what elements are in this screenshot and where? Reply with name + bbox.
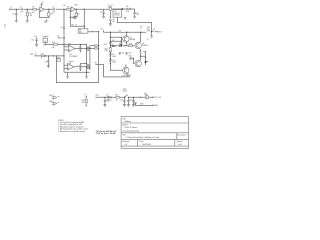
- svg-text:10/02/2020: 10/02/2020: [142, 144, 151, 146]
- svg-text:Q1: Q1: [130, 37, 132, 39]
- svg-text:R13: R13: [104, 44, 107, 46]
- svg-text:Author: Author: [123, 124, 129, 127]
- svg-text:n/c: n/c: [57, 96, 59, 98]
- svg-text:D3: D3: [112, 60, 114, 62]
- svg-text:power: power: [123, 91, 128, 93]
- svg-text:C7: C7: [100, 12, 102, 14]
- svg-text:C:\Users\Chuck\Desk - SubEngr: C:\Users\Chuck\Desk - SubEngr v1.0 .brd: [126, 137, 159, 139]
- svg-text:1 of 1: 1 of 1: [178, 144, 183, 146]
- svg-text:TL072ACP: TL072ACP: [69, 55, 78, 58]
- svg-text:SW1: SW1: [123, 89, 127, 91]
- svg-text:C12: C12: [45, 61, 48, 63]
- svg-text:C3: C3: [52, 6, 54, 8]
- svg-text:R10: R10: [52, 42, 55, 44]
- svg-text:gnd: gnd: [44, 22, 47, 24]
- svg-text:R8: R8: [72, 25, 74, 27]
- svg-text:R2: R2: [32, 6, 34, 8]
- svg-text:D6: D6: [144, 93, 146, 95]
- svg-text:R4: R4: [63, 5, 65, 7]
- svg-text:ox: ox: [140, 28, 142, 30]
- svg-text:10k: 10k: [82, 102, 85, 104]
- svg-text:R15: R15: [119, 43, 122, 45]
- svg-text:U4: U4: [57, 36, 59, 38]
- svg-text:C20: C20: [107, 101, 110, 103]
- svg-text:R5: R5: [77, 14, 79, 16]
- svg-text:D2: D2: [112, 54, 114, 56]
- svg-text:U3B: U3B: [68, 63, 71, 65]
- svg-text:R21: R21: [115, 94, 118, 96]
- svg-text:C14: C14: [121, 52, 124, 54]
- svg-text:D1: D1: [112, 40, 114, 42]
- svg-text:D5: D5: [106, 94, 108, 96]
- svg-text:10u: 10u: [136, 14, 139, 16]
- svg-text:R14: R14: [105, 48, 108, 50]
- svg-text:10k: 10k: [105, 50, 108, 52]
- svg-text:C4: C4: [4, 24, 6, 26]
- svg-text:4148: 4148: [112, 56, 116, 58]
- svg-text:1uF: 1uF: [52, 12, 55, 14]
- svg-text:R12: R12: [57, 57, 60, 59]
- svg-text:J1: J1: [10, 7, 12, 9]
- svg-text:R20: R20: [82, 100, 85, 102]
- svg-text:C22: C22: [129, 100, 132, 102]
- svg-text:C11: C11: [31, 39, 34, 41]
- svg-text:Chuck D. Herrin: Chuck D. Herrin: [124, 127, 137, 129]
- svg-text:C9: C9: [140, 26, 142, 28]
- svg-text:4.7k: 4.7k: [126, 11, 129, 13]
- svg-text:spk: spk: [144, 62, 147, 64]
- svg-text:1k: 1k: [75, 25, 77, 27]
- svg-text:10k: 10k: [52, 47, 55, 49]
- svg-text:R3: R3: [51, 14, 53, 16]
- svg-text:Q2: Q2: [142, 43, 144, 45]
- svg-text:bias: bias: [79, 32, 82, 34]
- svg-text:C2: C2: [12, 13, 14, 15]
- svg-text:OUT +9V: OUT +9V: [154, 97, 162, 99]
- svg-text:1.0: 1.0: [125, 144, 128, 146]
- svg-text:R16: R16: [129, 43, 132, 45]
- svg-text:bias2: bias2: [69, 61, 73, 63]
- svg-text:SubEngr: SubEngr: [124, 121, 131, 123]
- svg-text:.1uF: .1uF: [20, 12, 23, 14]
- svg-text:C15: C15: [128, 52, 131, 54]
- svg-text:R25: R25: [30, 54, 33, 56]
- svg-text:Date: Date: [140, 140, 144, 143]
- svg-text:R17: R17: [129, 56, 132, 58]
- svg-text:10u: 10u: [112, 21, 115, 23]
- svg-text:4148: 4148: [112, 62, 116, 64]
- svg-text:Document: Document: [178, 133, 187, 136]
- svg-text:CPump: CPump: [114, 15, 120, 17]
- svg-text:Title: Title: [123, 117, 126, 120]
- svg-text:4148: 4148: [112, 46, 116, 48]
- svg-text:U1B: U1B: [49, 95, 52, 97]
- svg-text:Sheets: Sheets: [177, 140, 183, 143]
- svg-text:BT1: BT1: [96, 95, 99, 97]
- svg-text:Q3 2N3906: Q3 2N3906: [123, 75, 131, 77]
- svg-text:Revision: Revision: [123, 141, 130, 143]
- svg-text:U4B: U4B: [49, 101, 52, 103]
- svg-text:10: 10: [116, 99, 118, 101]
- svg-text:RL: RL: [95, 63, 97, 65]
- svg-text:C10: C10: [34, 36, 37, 38]
- svg-text:Celestia Engineering: Celestia Engineering: [123, 129, 140, 132]
- svg-text:47k: 47k: [32, 12, 35, 14]
- svg-text:R11: R11: [41, 53, 44, 55]
- svg-text:R7: R7: [126, 6, 128, 8]
- svg-text:-75.97 tol. 4y sel. 15n dB.: -75.97 tol. 4y sel. 15n dB.: [96, 132, 117, 135]
- svg-text:5. All resistors are metal fil: 5. All resistors are metal film except: [58, 130, 85, 133]
- svg-text:GND: GND: [154, 105, 159, 107]
- svg-text:10k: 10k: [67, 7, 70, 9]
- svg-text:2N3904: 2N3904: [142, 45, 148, 47]
- svg-text:V+: V+: [84, 94, 86, 96]
- svg-text:U2: U2: [111, 5, 113, 7]
- svg-text:C5: C5: [61, 27, 63, 29]
- svg-text:C1: C1: [20, 6, 22, 8]
- svg-text:File: File: [123, 134, 126, 136]
- svg-text:1k: 1k: [41, 58, 43, 60]
- svg-text:2N3904: 2N3904: [130, 39, 136, 41]
- svg-text:C21: C21: [120, 100, 123, 102]
- svg-text:n/c: n/c: [57, 102, 59, 104]
- svg-text:in: in: [4, 26, 5, 28]
